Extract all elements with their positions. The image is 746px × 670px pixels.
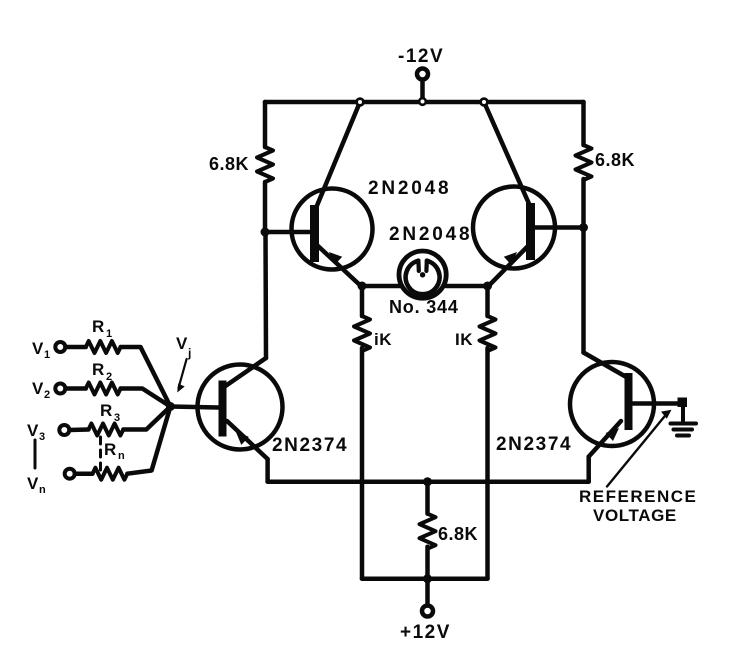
wire node to Q3 base (170, 407, 218, 408)
terminal V2 (55, 384, 65, 394)
wire R1 to node (121, 347, 171, 407)
svg-text:3: 3 (39, 431, 45, 443)
resistor 1K left (354, 316, 370, 351)
svg-text:n: n (39, 484, 46, 496)
svg-text:2N2374: 2N2374 (272, 435, 348, 456)
terminal Vn (65, 469, 75, 479)
wire R3 to node (123, 407, 170, 430)
svg-text:6.8K: 6.8K (209, 154, 249, 174)
resistor 1K right (480, 316, 496, 351)
svg-text:n: n (118, 450, 125, 462)
terminal +12V (422, 579, 433, 617)
svg-text:VOLTAGE: VOLTAGE (593, 506, 677, 525)
svg-text:R: R (104, 440, 116, 459)
wire left rail lower (263, 232, 268, 358)
svg-text:No. 344: No. 344 (389, 297, 459, 317)
transistor Q4 2N2374 (right) (570, 353, 654, 482)
wire V3 to R3 (70, 427, 89, 432)
node base tap left (261, 228, 270, 237)
transistor Q1 2N2048 (left) (292, 102, 373, 287)
wire right rail upper (581, 102, 586, 145)
wire 1K right top (485, 286, 490, 316)
label R3 (100, 401, 120, 424)
wire right rail lower (581, 228, 586, 353)
transistor Q3 2N2374 (left) (198, 358, 283, 482)
wire emitter rail (268, 479, 589, 484)
svg-text:2N2048: 2N2048 (368, 178, 451, 199)
wire right rail mid (581, 179, 586, 228)
wire left rail upper (263, 102, 268, 147)
node on -12V tap (419, 98, 426, 105)
label V2 (32, 379, 50, 401)
dashed continuation R3 to Rn (99, 437, 102, 470)
wire 1K right bottom (485, 348, 490, 579)
resistor 6.8K left (257, 147, 273, 182)
svg-text:REFERENCE: REFERENCE (579, 487, 697, 506)
wire 1K left top (360, 286, 365, 316)
resistor Rn (93, 468, 128, 480)
node lamp left (358, 282, 367, 291)
svg-text:V: V (27, 421, 39, 440)
svg-text:6.8K: 6.8K (595, 150, 635, 170)
wire R2 to node (121, 389, 171, 407)
wire V3 to Vn continuation (34, 440, 37, 468)
label Vj (176, 334, 191, 360)
transistor Q2 2N2048 (right) (473, 102, 555, 287)
svg-text:6.8K: 6.8K (438, 524, 478, 544)
label R1 (92, 317, 112, 340)
wire bottom rail (362, 576, 488, 581)
node lamp right (483, 282, 492, 291)
node 6.8K tail tap (423, 477, 432, 486)
wire base Q2 (535, 225, 584, 230)
wire V1 to R1 (66, 345, 86, 350)
node base tap right (579, 223, 588, 232)
terminal -12V (417, 69, 428, 100)
node +12V tap (423, 574, 432, 583)
wire V2 to R2 (66, 386, 86, 391)
svg-text:R: R (92, 360, 104, 379)
wire 1K left bottom (360, 348, 365, 579)
wire top rail (265, 100, 584, 105)
wire tail lower (425, 547, 430, 579)
ground (671, 406, 697, 436)
svg-text:1: 1 (44, 349, 50, 361)
svg-text:j: j (187, 346, 191, 360)
arrow Vj pointer (177, 359, 186, 393)
label Vn (27, 474, 46, 496)
resistor R2 (86, 383, 121, 395)
svg-text:2N2374: 2N2374 (496, 434, 572, 455)
arrow reference voltage pointer (607, 410, 672, 487)
svg-text:V: V (27, 474, 39, 493)
svg-text:-12V: -12V (398, 46, 444, 67)
svg-text:IK: IK (455, 330, 473, 349)
node right collector junction (481, 99, 488, 106)
wire base Q1 (265, 230, 311, 235)
resistor R1 (86, 341, 121, 353)
label V1 (32, 339, 50, 361)
lamp No.344 (399, 251, 446, 298)
svg-text:V: V (32, 379, 44, 398)
wire lamp left (362, 284, 400, 289)
svg-text:1: 1 (106, 328, 112, 340)
node Vj summing junction (166, 402, 175, 411)
label V3 (27, 421, 45, 443)
svg-text:R: R (92, 317, 104, 336)
terminal V3 (59, 425, 69, 435)
wire lamp right (446, 284, 488, 289)
svg-text:2: 2 (44, 389, 50, 401)
node ground junction (678, 398, 688, 408)
wire base Q4 to ground (633, 401, 681, 406)
terminal V1 (55, 342, 65, 352)
svg-text:2N2048: 2N2048 (389, 224, 472, 245)
resistor 6.8K right (576, 145, 592, 180)
label Rn (104, 440, 125, 462)
label R2 (92, 360, 112, 383)
svg-text:V: V (176, 334, 188, 353)
wire Vn to Rn (75, 471, 93, 476)
svg-text:V: V (32, 339, 44, 358)
svg-text:+12V: +12V (400, 622, 451, 643)
svg-text:R: R (100, 401, 112, 420)
resistor R3 (89, 424, 124, 436)
svg-text:iK: iK (374, 330, 392, 349)
wire Rn to node (127, 407, 170, 474)
wire left rail mid (263, 182, 268, 232)
node left collector junction (357, 99, 364, 106)
wire tail upper (425, 482, 430, 514)
resistor 6.8K tail (420, 514, 436, 549)
